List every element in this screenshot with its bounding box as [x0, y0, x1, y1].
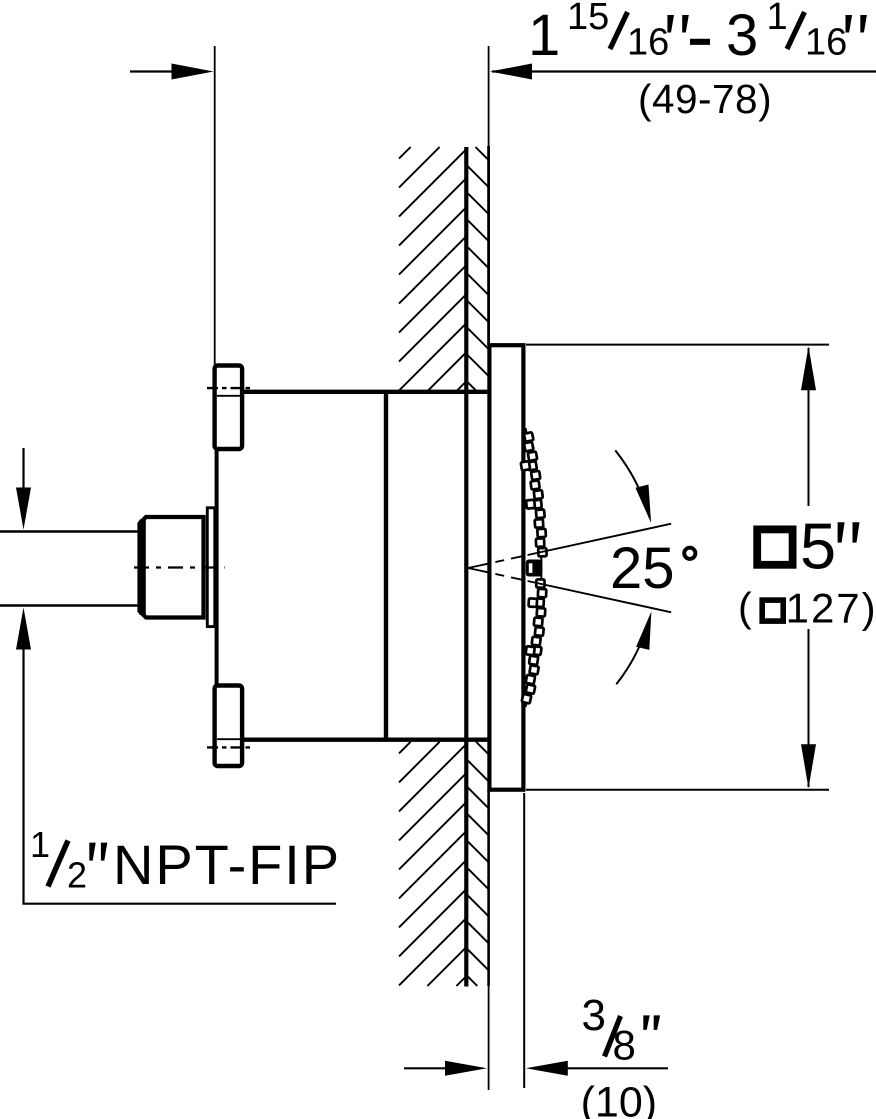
- svg-text:5: 5: [800, 510, 836, 583]
- svg-text:15: 15: [567, 0, 609, 38]
- flange washer: [207, 508, 215, 627]
- spray face arc: [526, 428, 542, 707]
- top dimension text 1 15/16" - 3 1/16": [528, 0, 867, 68]
- svg-text:(: (: [738, 584, 752, 630]
- svg-text:2: 2: [67, 855, 87, 896]
- wall finish layer hatch lower: [467, 975, 478, 986]
- top dimension line: [492, 70, 876, 72]
- 3/8 dimension left arrow: [404, 1067, 450, 1069]
- spray nozzles: [521, 432, 547, 703]
- mounting ear top: [215, 366, 243, 450]
- svg-text:3: 3: [582, 991, 606, 1040]
- NPT-FIP leader line: [22, 903, 336, 905]
- mounting ear bottom: [215, 686, 243, 767]
- svg-text:16: 16: [627, 22, 669, 64]
- svg-text:25: 25: [610, 536, 675, 601]
- svg-text:1: 1: [528, 3, 560, 68]
- svg-text:(49-78): (49-78): [638, 76, 772, 122]
- 3/8 dimension extension line (plate face): [523, 793, 525, 1088]
- svg-text:127): 127): [786, 584, 876, 631]
- body divider: [384, 392, 388, 740]
- pipe centerline: [134, 566, 225, 568]
- extension line: body left face: [214, 46, 216, 365]
- svg-text:1: 1: [767, 0, 788, 38]
- spray angle rays (25 deg): [468, 524, 671, 568]
- 3/8 dimension right arrow: [560, 1067, 668, 1069]
- escutcheon plate: [489, 345, 523, 790]
- svg-text:(10): (10): [581, 1079, 657, 1119]
- svg-text:8: 8: [613, 1022, 636, 1069]
- pipe diameter dimension bottom arrow: [22, 648, 24, 904]
- svg-text:16: 16: [805, 22, 847, 64]
- wall finish layer hatch upper: [467, 381, 478, 392]
- valve body outline: [242, 390, 489, 394]
- wall face line (finished surface): [488, 46, 490, 146]
- 5in dimension extension top: [526, 344, 829, 346]
- svg-text:1: 1: [30, 824, 50, 865]
- ear top centerline: [207, 387, 250, 389]
- ear bottom centerline: [207, 746, 250, 748]
- top dimension left arrow: [130, 70, 180, 72]
- svg-text:NPT-FIP: NPT-FIP: [113, 833, 341, 896]
- wall inner boundary line: [464, 147, 468, 987]
- svg-text:3: 3: [726, 3, 758, 68]
- wall hatch upper (rough wall): [399, 147, 411, 159]
- hex adapter (union nut): [140, 517, 204, 618]
- center nozzle: [526, 560, 542, 577]
- pipe diameter dimension top arrow: [22, 448, 24, 490]
- spray angle arc upper with arrow: [615, 450, 649, 517]
- 5in dimension line with arrows: [808, 348, 810, 506]
- wall hatch lower (rough wall): [399, 742, 411, 754]
- supply pipe: [0, 530, 140, 532]
- spray angle arc lower with arrow: [616, 617, 650, 685]
- 5in label (square 5"): [757, 529, 792, 564]
- 5in dimension extension bottom: [526, 789, 829, 791]
